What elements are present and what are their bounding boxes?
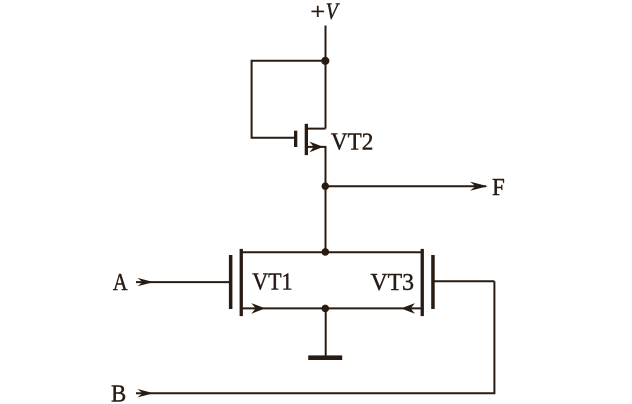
svg-text:B: B [111, 380, 126, 404]
node: drain rail junction [322, 248, 330, 256]
wire: input B line and riser to VT3 gate [136, 281, 494, 393]
transistor VT2 source arrow [310, 142, 324, 153]
svg-text:VT3: VT3 [371, 269, 415, 296]
svg-text:A: A [113, 269, 128, 296]
wire: input A lead to VT1 gate [136, 281, 229, 283]
transistor VT1 channel bar [240, 249, 243, 316]
transistor VT3 channel bar [421, 249, 424, 316]
wire: VT3 gate lead [435, 280, 495, 282]
wire: ground lead [325, 308, 327, 356]
svg-text:VT1: VT1 [252, 268, 292, 295]
wire: VT2 source lead [308, 146, 327, 148]
transistor VT2 gate plate [294, 131, 297, 147]
svg-text:+: + [310, 0, 325, 25]
wire: VT2 drain lead [308, 128, 326, 130]
node: source rail junction [322, 305, 330, 313]
wire: VT2 source down to output node and drain rail [325, 147, 327, 252]
svg-text:F: F [492, 174, 505, 201]
wire: feedback loop from supply node to VT2 gate [252, 61, 326, 138]
svg-text:V: V [326, 0, 340, 25]
ground [308, 355, 342, 360]
node: supply/gate feedback junction [321, 57, 329, 65]
arrowhead: output F [470, 182, 488, 191]
transistor VT3 gate plate [431, 255, 435, 309]
arrowhead: input B [138, 389, 154, 397]
wire: drain rail of VT1/VT3 [241, 251, 422, 253]
transistor VT1 source arrow [251, 303, 265, 314]
wire: output line to F [326, 185, 487, 187]
transistor VT2 channel bar [305, 124, 308, 155]
wire: source rail of VT1/VT3 [241, 307, 422, 309]
node: output F junction [322, 182, 330, 190]
wire: +V supply vertical down to VT2 drain [325, 26, 327, 129]
svg-text:VT2: VT2 [331, 128, 373, 155]
arrowhead: input A [138, 278, 154, 286]
transistor VT1 gate plate [229, 255, 233, 309]
transistor VT3 source arrow [401, 303, 415, 314]
